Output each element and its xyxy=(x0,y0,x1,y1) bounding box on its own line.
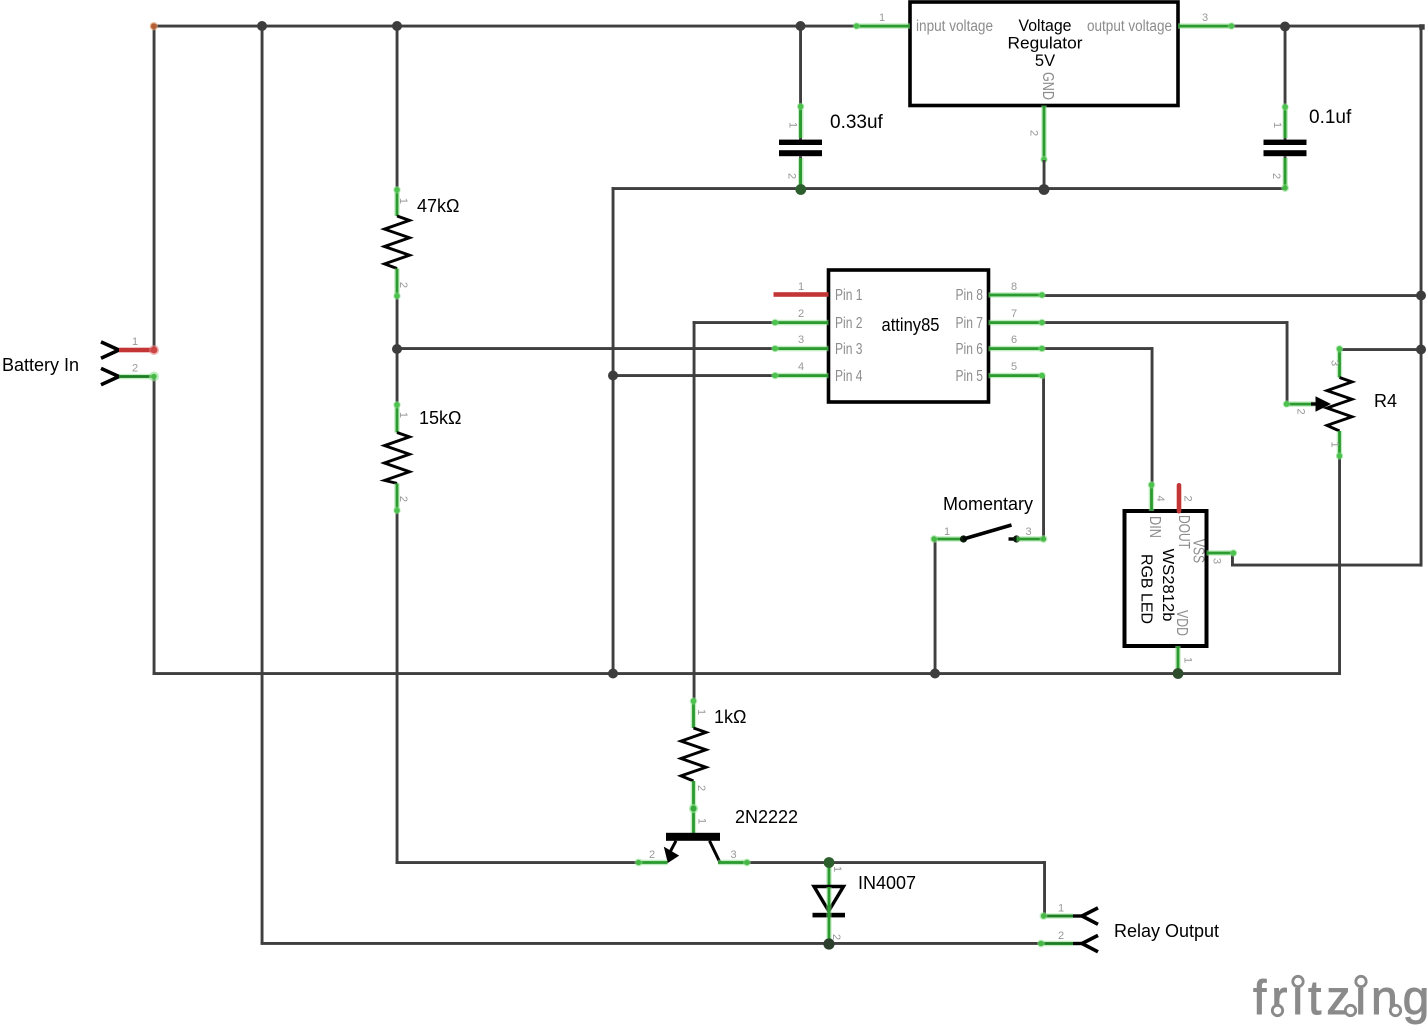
wire R4 pin3 horizontal y=349.5 to right rail xyxy=(1340,348,1423,351)
svg-text:5V: 5V xyxy=(1035,52,1055,70)
svg-text:3: 3 xyxy=(1025,526,1031,538)
regulator pin 2 GND lead xyxy=(1041,106,1047,161)
wire 0.33uf top vertical x=800.5 xyxy=(799,25,802,141)
svg-text:input voltage: input voltage xyxy=(916,18,993,35)
wire x=397 top rail to 47k xyxy=(396,25,399,191)
svg-text:2: 2 xyxy=(649,849,655,861)
15k pin 2 lead xyxy=(394,483,400,512)
R4 pin 2 wiper lead xyxy=(1285,401,1315,407)
svg-text:Pin 8: Pin 8 xyxy=(956,287,984,304)
2N2222 emitter diagonal xyxy=(670,841,677,853)
wire ground horizontal y=188.5 xyxy=(612,187,1286,190)
svg-text:2: 2 xyxy=(1058,930,1064,942)
wire VSS stub vertical x=1232.5 xyxy=(1231,552,1234,567)
1k pin 2 lead xyxy=(691,781,697,809)
junction resistor-base (bright green) xyxy=(689,804,698,813)
junction right rail R4 pin3 (1421,349.5) xyxy=(1416,345,1426,355)
0.1uf pin 1 lead xyxy=(1283,105,1289,138)
47k zigzag body xyxy=(385,216,410,269)
svg-text:Pin 7: Pin 7 xyxy=(956,315,984,332)
svg-text:2: 2 xyxy=(1182,495,1194,501)
svg-text:attiny85: attiny85 xyxy=(882,314,940,335)
svg-text:1kΩ: 1kΩ xyxy=(714,707,746,727)
2N2222 base bar xyxy=(666,833,720,841)
svg-text:1: 1 xyxy=(1329,441,1341,447)
svg-text:Voltage: Voltage xyxy=(1019,17,1072,35)
IN4007 cathode bar xyxy=(813,913,846,918)
svg-text:DOUT: DOUT xyxy=(1175,515,1192,549)
momentary contact 3 stub xyxy=(1009,537,1017,540)
svg-text:2N2222: 2N2222 xyxy=(735,807,798,827)
svg-text:5: 5 xyxy=(1011,361,1017,373)
relay pin 2 chevron xyxy=(1082,935,1098,951)
wire pin7 vertical x=1287 down to R4 wiper xyxy=(1286,321,1289,405)
junction bus momentary (935,673.5) xyxy=(930,669,940,679)
wire attiny pin5 vertical x=1043.5 down to momentary xyxy=(1042,376,1045,541)
svg-text:2: 2 xyxy=(132,363,138,375)
0.1uf pin 2 lead xyxy=(1284,156,1287,189)
wire attiny pin6 horizontal y=348.5 xyxy=(1043,347,1153,350)
svg-text:2: 2 xyxy=(397,496,409,502)
battery pin 1 connection dot (red) xyxy=(149,345,159,355)
wire top +V rail right segment (regulator output to top-right corner) xyxy=(1231,25,1423,28)
svg-text:47kΩ: 47kΩ xyxy=(417,196,459,216)
attiny85 pin 2 lead xyxy=(774,320,829,326)
svg-text:3: 3 xyxy=(1211,558,1223,564)
momentary lever xyxy=(964,525,1012,539)
momentary pin 3 lead xyxy=(1017,536,1045,542)
junction diode top (829,862.5) xyxy=(824,857,835,868)
junction ground 0.33uf (800.5,189.5) xyxy=(795,184,806,195)
svg-text:3: 3 xyxy=(1329,360,1341,366)
wire attiny pin2 vertical down to 1k (x=694) xyxy=(693,321,696,701)
0.33uf pin 2 lead xyxy=(799,156,802,189)
svg-text:1: 1 xyxy=(1182,657,1194,663)
svg-text:GND: GND xyxy=(1039,72,1056,100)
1k pin 1 lead xyxy=(691,699,697,728)
connector J1 Battery In xyxy=(2,336,159,385)
svg-text:1: 1 xyxy=(831,866,843,872)
wire VSS horizontal y=565 xyxy=(1231,564,1423,567)
wire x=397 between 47k and 15k (divider node) xyxy=(396,296,399,404)
svg-text:1: 1 xyxy=(696,818,708,824)
15k pin 1 lead xyxy=(394,403,400,433)
IN4007 pin 2 lead xyxy=(826,887,832,943)
capacitor C2 0.1uf xyxy=(1264,25,1352,192)
switch S1 Momentary xyxy=(930,494,1048,543)
attiny85 pin 7 lead xyxy=(989,320,1044,326)
junction divider node (397,349.5) xyxy=(392,344,402,354)
2N2222 collector lead (pin 3) xyxy=(718,860,749,866)
battery pin 2 lead (green) xyxy=(119,374,154,380)
junction ground regulator GND (1044,189.5) xyxy=(1039,184,1050,195)
svg-text:Pin 3: Pin 3 xyxy=(835,341,863,358)
svg-text:2: 2 xyxy=(830,934,842,940)
svg-text:Pin 5: Pin 5 xyxy=(956,368,984,385)
svg-text:R4: R4 xyxy=(1374,391,1397,411)
svg-text:3: 3 xyxy=(1202,12,1208,24)
relay pin 1 stub xyxy=(1073,914,1082,917)
junction output rail x=1285 (0.1uf) xyxy=(1280,22,1290,32)
WS2812b pin 1 VDD lead xyxy=(1175,646,1181,670)
2N2222 base lead (pin 1) xyxy=(691,808,697,834)
wire right rail vertical x=1421 xyxy=(1420,25,1423,567)
junction bus WS2812 VDD (1178,673.5) xyxy=(1173,668,1184,679)
1k zigzag body xyxy=(681,728,706,781)
svg-text:1: 1 xyxy=(798,281,804,293)
wire attiny pin7 horizontal y=322.5 xyxy=(1043,321,1289,324)
resistor R2 15k xyxy=(385,401,462,514)
svg-text:1: 1 xyxy=(879,12,885,24)
IN4007 pin 1 lead xyxy=(826,862,832,888)
svg-text:1: 1 xyxy=(1271,122,1283,128)
attiny85 pin 1 lead (red, unconnected) xyxy=(774,292,829,297)
svg-text:1: 1 xyxy=(397,412,409,418)
wire top +V rail left segment xyxy=(153,25,857,28)
svg-text:6: 6 xyxy=(1011,334,1017,346)
svg-text:2: 2 xyxy=(798,308,804,320)
svg-text:Pin 1: Pin 1 xyxy=(835,287,863,304)
svg-text:1: 1 xyxy=(1058,903,1064,915)
15k zigzag body xyxy=(385,433,410,484)
svg-text:Momentary: Momentary xyxy=(943,494,1033,514)
svg-text:1: 1 xyxy=(695,709,707,715)
svg-text:fritzing: fritzing xyxy=(1253,972,1428,1025)
svg-text:RGB LED: RGB LED xyxy=(1138,554,1155,624)
fritzing watermark xyxy=(1253,972,1428,1025)
attiny85 pin 6 lead xyxy=(989,346,1044,352)
svg-text:8: 8 xyxy=(1011,281,1017,293)
attiny85 pin 5 lead xyxy=(989,373,1044,379)
R4 zigzag body xyxy=(1327,378,1352,432)
R4 wiper arrow xyxy=(1311,402,1319,405)
0.33uf pin 1 lead xyxy=(798,104,804,138)
0.1uf plate 2 xyxy=(1264,150,1307,156)
0.33uf plate 2 xyxy=(779,150,822,156)
wire second vertical x=262 from top rail to bottom xyxy=(261,25,264,945)
transistor Q1 2N2222 xyxy=(635,804,799,867)
capacitor C1 0.33uf xyxy=(779,25,884,190)
junction top rail x=262 xyxy=(257,21,267,31)
relay pin 1 lead (green) xyxy=(1042,913,1074,919)
2N2222 emitter arrow xyxy=(664,847,679,863)
R4 pin 3 lead xyxy=(1337,347,1343,378)
endpoint top-left corner (orange) xyxy=(150,22,158,30)
svg-text:0.1uf: 0.1uf xyxy=(1309,107,1352,128)
svg-text:7: 7 xyxy=(1011,308,1017,320)
wire relay pin1 vertical x=1044.5 xyxy=(1043,861,1046,917)
svg-text:4: 4 xyxy=(798,361,804,373)
wire R4 pin1 vertical x=1339.5 down to bus xyxy=(1338,456,1341,675)
potentiometer R4 xyxy=(1283,345,1397,460)
svg-text:1: 1 xyxy=(787,122,799,128)
svg-text:VSS: VSS xyxy=(1190,539,1207,563)
battery pin 2 connection dot xyxy=(149,372,159,382)
junction right rail pin8 (1421,296) xyxy=(1416,291,1426,301)
svg-text:Pin 6: Pin 6 xyxy=(956,341,984,358)
relay pin 1 chevron xyxy=(1082,908,1098,924)
momentary contact 3 dot xyxy=(1013,535,1020,542)
momentary contact 1 dot xyxy=(960,535,967,542)
endpoint top-right corner xyxy=(1419,24,1425,30)
svg-text:Pin 4: Pin 4 xyxy=(835,368,863,385)
IN4007 triangle xyxy=(814,887,844,912)
svg-text:DIN: DIN xyxy=(1146,516,1163,538)
wire attiny pin8 horizontal y=295.5 to right rail xyxy=(1043,294,1423,297)
47k pin 2 lead xyxy=(394,269,400,298)
regulator pin 1 input lead xyxy=(855,23,910,29)
0.1uf plate 1 xyxy=(1264,140,1307,145)
wire attiny pin3 horizontal y=348.5 to divider node xyxy=(396,347,775,350)
battery pin 2 chevron xyxy=(101,368,119,384)
svg-text:4: 4 xyxy=(1154,495,1166,501)
svg-text:1: 1 xyxy=(944,526,950,538)
wire ground bus horizontal y=673.5 xyxy=(153,672,1341,675)
svg-text:2: 2 xyxy=(786,173,798,179)
junction top rail x=800.5 (0.33uf) xyxy=(796,21,806,31)
svg-text:1: 1 xyxy=(132,336,138,348)
wire momentary pin1 vertical x=935 down to bus xyxy=(934,539,937,675)
junction diode bottom (829,943.5) xyxy=(823,938,834,949)
47k pin 1 lead xyxy=(394,188,400,216)
resistor R3 1k xyxy=(681,697,746,809)
wire ground left vertical x=613 xyxy=(612,187,615,675)
svg-text:0.33uf: 0.33uf xyxy=(830,112,884,133)
voltage regulator U2 box xyxy=(853,2,1236,189)
0.33uf plate 1 xyxy=(779,140,822,145)
relay pin 2 lead (green) xyxy=(1039,941,1073,947)
svg-text:3: 3 xyxy=(798,334,804,346)
wire battery pin2 down to ground bus (x=154) xyxy=(153,376,156,675)
svg-text:Regulator: Regulator xyxy=(1008,35,1084,53)
relay pin 2 stub xyxy=(1073,942,1082,945)
attiny85 pin 8 lead xyxy=(989,292,1044,298)
svg-text:Relay Output: Relay Output xyxy=(1114,921,1219,941)
wire attiny pin4 horizontal y=375.5 xyxy=(612,374,775,377)
wire bottom elbow to relay pin2 (y=943.5) xyxy=(261,942,1042,945)
svg-text:Battery In: Battery In xyxy=(2,355,79,375)
wire x=397 from 15k bottom down to emitter wire xyxy=(396,511,399,864)
R4 pin 1 lead xyxy=(1337,431,1343,458)
svg-text:WS2812b: WS2812b xyxy=(1159,549,1176,622)
LED module U3 WS2812b box xyxy=(1125,481,1238,670)
svg-text:3: 3 xyxy=(730,849,736,861)
op-amp U1 attiny85 box xyxy=(771,270,1046,402)
svg-text:1: 1 xyxy=(397,198,409,204)
momentary pin 1 lead xyxy=(932,536,964,542)
2N2222 emitter lead (pin 2) xyxy=(637,860,668,866)
attiny85 pin 4 lead xyxy=(774,373,829,379)
svg-text:2: 2 xyxy=(1295,408,1307,414)
svg-text:15kΩ: 15kΩ xyxy=(419,408,461,428)
WS2812b pin 2 DOUT lead (red, unconnected) xyxy=(1177,483,1182,514)
svg-text:2: 2 xyxy=(1270,173,1282,179)
wire pin6 vertical x=1152 down to WS2812 DIN xyxy=(1151,347,1154,484)
junction bus (613,673.5) xyxy=(608,669,618,679)
wire 0.1uf top vertical x=1285 xyxy=(1284,25,1287,141)
2N2222 collector diagonal xyxy=(710,841,720,862)
wire GND lead to ground line xyxy=(1043,160,1046,189)
junction top rail x=397 xyxy=(392,21,402,31)
svg-text:output voltage: output voltage xyxy=(1087,18,1172,35)
svg-text:2: 2 xyxy=(1028,130,1040,136)
regulator pin 3 output lead xyxy=(1178,23,1233,29)
wire emitter horizontal y=862.5 xyxy=(396,861,639,864)
svg-text:Pin 2: Pin 2 xyxy=(835,315,863,332)
resistor R1 47k xyxy=(385,186,460,300)
wire collector horizontal y=862.5 to relay elbow xyxy=(746,861,1046,864)
battery pin 1 chevron xyxy=(101,342,119,358)
svg-text:2: 2 xyxy=(397,282,409,288)
svg-text:IN4007: IN4007 xyxy=(858,873,916,893)
diode D1 IN4007 xyxy=(813,862,917,943)
junction pin4 wire (613,375.5) xyxy=(608,371,618,381)
connector J2 Relay Output xyxy=(1037,903,1219,952)
WS2812b pin 4 DIN lead xyxy=(1149,483,1155,511)
svg-text:2: 2 xyxy=(695,785,707,791)
battery pin 1 lead (red) xyxy=(119,348,154,353)
wire attiny pin2 horizontal y=322.5 xyxy=(693,321,775,324)
WS2812b pin 3 VSS lead xyxy=(1207,550,1235,556)
wire battery pin1 vertical (x=154) xyxy=(153,25,156,352)
attiny85 pin 3 lead xyxy=(774,346,829,352)
